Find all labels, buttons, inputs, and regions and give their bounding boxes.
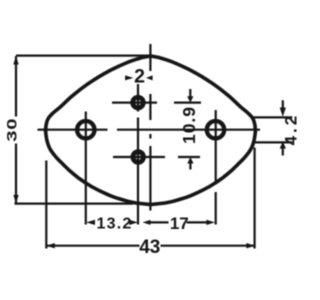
svg-text:10.9: 10.9 — [179, 106, 199, 144]
pin hole bottom — [133, 152, 144, 163]
svg-text:43: 43 — [139, 237, 160, 258]
left mounting hole centerline — [85, 112, 87, 225]
pin hole top — [133, 97, 144, 108]
right mounting hole — [207, 121, 224, 138]
svg-text:30: 30 — [4, 118, 20, 142]
dim 43 lines — [46, 148, 255, 249]
vertical centerline — [149, 44, 151, 211]
dim 2 arrows — [125, 75, 153, 80]
dim 30 lines — [15, 56, 152, 204]
dim 17 arrows — [143, 220, 215, 225]
left mounting hole — [77, 121, 94, 138]
dim 4.2 lines — [254, 100, 293, 155]
pin 2 horizontal centerline — [113, 156, 200, 158]
dim 10.9 lines — [189, 89, 191, 170]
dim 4.2 arrows — [280, 108, 286, 149]
dim 13.2 arrows — [86, 220, 138, 225]
flange outline — [46, 56, 256, 205]
pin 1 horizontal centerline — [112, 101, 201, 103]
svg-text:2: 2 — [134, 66, 145, 88]
dim 10.9 arrows — [187, 96, 193, 163]
dim 17 lines — [149, 221, 207, 223]
svg-text:13.2: 13.2 — [97, 215, 133, 232]
svg-text:4.2: 4.2 — [282, 113, 300, 146]
horizontal centerline — [38, 129, 261, 131]
right mounting hole centerline — [215, 110, 217, 225]
svg-text:17: 17 — [170, 214, 189, 233]
pin column centerline — [137, 84, 139, 225]
dim 43 arrows — [46, 243, 255, 248]
dim 30 arrows — [13, 56, 18, 203]
